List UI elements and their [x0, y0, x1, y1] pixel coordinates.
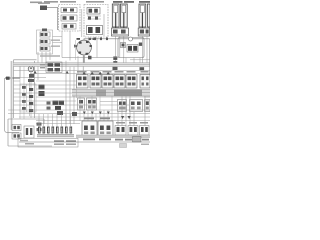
- aux valve block row2 far right: [145, 100, 151, 112]
- wires swing unit down: [62, 9, 104, 61]
- enclosure line right of cluster: [75, 40, 77, 60]
- travel motor label left: [84, 118, 94, 120]
- bus band mid: [14, 63, 151, 67]
- tick marks on manifold: [94, 38, 108, 41]
- dashed box A (pilot manifold): [59, 5, 81, 32]
- relief valve column left: [20, 61, 36, 119]
- pump suction line: [83, 55, 85, 64]
- bottom rail and captions: [19, 139, 150, 148]
- control valve block V5: [126, 75, 137, 89]
- bottom gallery band: [76, 135, 150, 138]
- pilot label box bottom: [18, 138, 78, 147]
- wire from S1 down: [57, 8, 59, 31]
- label bucket cylinder group: [139, 1, 150, 3]
- right edge drain line: [148, 39, 150, 88]
- risers bottom right: [118, 96, 145, 126]
- control valve block V1: [77, 75, 89, 89]
- valve cluster left-mid: [37, 29, 63, 55]
- junction cluster above valve row: [57, 111, 63, 115]
- small check marks above groups: [121, 116, 131, 119]
- control valve block V4: [114, 75, 125, 89]
- annotation text near cluster: [51, 40, 60, 41]
- wires valve cluster down: [38, 52, 50, 80]
- title text row top: [30, 1, 104, 3]
- label mini-cylinder group: [113, 1, 123, 3]
- tick marks above pump on outlet line: [77, 38, 96, 40]
- caption text mid-left: [40, 55, 60, 56]
- travel motor block M1: [82, 121, 97, 137]
- risers bottom center: [77, 88, 113, 121]
- relief group G3: [140, 126, 150, 136]
- aux valve block row2 mid: [87, 98, 97, 110]
- gear pump circle small: [28, 66, 34, 118]
- sub valve under gear pump: [29, 74, 34, 78]
- left circuit box border: [14, 60, 37, 118]
- wire row y70: [14, 70, 151, 72]
- control valve block V2: [90, 75, 101, 89]
- labels above valve bank: [77, 71, 149, 73]
- inline filter F1: [5, 77, 20, 80]
- pilot valve cluster center: [40, 62, 62, 73]
- wire top manifold horizontal: [84, 38, 150, 40]
- suction pipe light band: [11, 61, 13, 130]
- relief pair center-left: [39, 85, 45, 97]
- junction block left of box D: [113, 57, 117, 60]
- check arrows on return row: [34, 71, 110, 75]
- check valve arrow in left box: [16, 62, 28, 77]
- drain check component right: [140, 67, 145, 70]
- bottom-left pilot box: [8, 119, 52, 146]
- check arrows bottom center: [83, 112, 110, 115]
- main return line vertical: [5, 78, 19, 133]
- pump P1: [74, 40, 92, 55]
- wires cylinders to bus: [116, 36, 147, 63]
- cylinder C4 partial right edge: [148, 4, 151, 27]
- wire row y57: [62, 57, 118, 59]
- center horizontal wires: [14, 78, 151, 98]
- labels above bottom-right groups: [116, 122, 148, 124]
- pump outlet wire up: [83, 39, 85, 41]
- relief group G1: [115, 126, 126, 136]
- aux valve block row2 right2: [130, 100, 143, 112]
- box D (pilot valve unit right): [118, 37, 150, 63]
- tank T1: [133, 137, 142, 143]
- labels under travel motors: [83, 139, 95, 141]
- solenoid valve row bottom (8 valves): [37, 114, 74, 137]
- cylinder C2: [120, 4, 127, 28]
- control valve block V6: [140, 75, 150, 89]
- control valve block V3: [102, 75, 113, 89]
- long return wires lower: [8, 97, 150, 124]
- check valve on band left: [113, 67, 118, 70]
- junction cluster above valve row right: [72, 112, 77, 116]
- dashed box B (swing motor unit): [84, 5, 108, 38]
- wire row y73: [30, 73, 150, 75]
- travel motor block M2: [98, 121, 113, 137]
- junction block on y57: [88, 56, 92, 60]
- aux valve block row2 left: [78, 98, 85, 110]
- holding valve block under C3: [138, 28, 150, 36]
- vertical risers center: [66, 56, 78, 124]
- solenoid valve S1: [38, 3, 58, 11]
- travel motor label right: [100, 118, 110, 120]
- cylinder C3: [139, 4, 146, 28]
- solenoid cluster center low: [47, 101, 65, 111]
- relief group G2: [128, 126, 138, 136]
- aux valve block row2 right1: [118, 100, 127, 112]
- cylinder C1: [112, 4, 119, 28]
- junction block 2 left of box D: [113, 61, 117, 64]
- holding valve block under C1/C2: [112, 28, 129, 36]
- gallery band under valve bank: [72, 90, 150, 97]
